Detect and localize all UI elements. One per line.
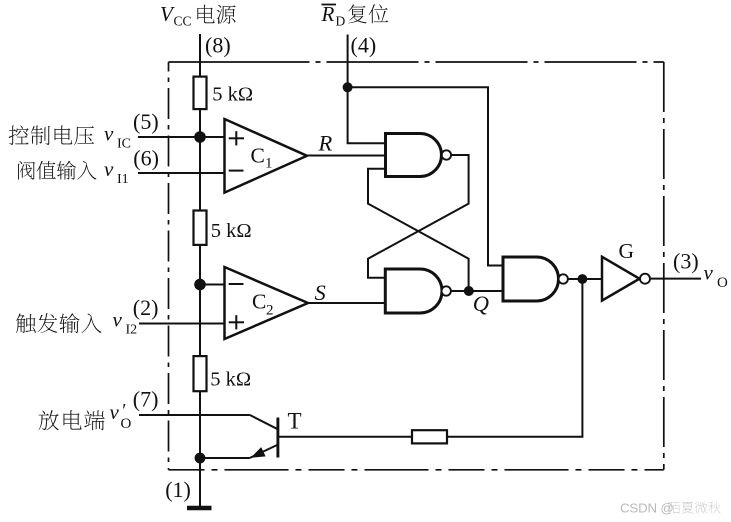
wire G2 output to G3 / node Q: [451, 290, 503, 292]
wire pin 7 discharge: [139, 414, 250, 416]
svg-text:(2): (2): [133, 295, 159, 320]
wire emitter to rail: [200, 457, 250, 459]
input label 放电端 v_O': [39, 400, 132, 432]
svg-text:(5): (5): [133, 109, 159, 134]
pin (8) label: [205, 32, 231, 57]
svg-text:(3): (3): [673, 249, 699, 274]
svg-text:5 kΩ: 5 kΩ: [210, 369, 251, 391]
pin (2) label: [133, 295, 159, 320]
svg-text:v: v: [104, 121, 114, 145]
pin (3) label: [673, 249, 699, 274]
op-amp C2 (comparator): [225, 267, 309, 339]
svg-text:1: 1: [265, 156, 273, 172]
svg-text:T: T: [288, 409, 302, 434]
wire Q-bar down to base resistor: [447, 279, 582, 437]
svg-text:5 kΩ: 5 kΩ: [212, 84, 253, 106]
wire pin 2 trigger: [139, 323, 225, 325]
svg-text:v: v: [110, 400, 120, 424]
resistor R3 5kΩ: [194, 356, 252, 391]
svg-text:I2: I2: [126, 323, 138, 338]
pin (5) label: [133, 109, 159, 134]
pin (6) label: [133, 146, 159, 171]
IC package boundary (dash-dot): [169, 62, 664, 470]
input label 控制电压 v_IC: [9, 121, 131, 151]
wire pin 5 control voltage: [138, 136, 225, 138]
input label 触发输入 v_I2: [16, 307, 137, 337]
net label Vcc power (V_CC 电源): [160, 2, 236, 29]
svg-text:v: v: [113, 307, 123, 331]
wire pin 4 reset line down to G1 first input: [348, 35, 386, 144]
svg-text:(8): (8): [205, 32, 231, 57]
resistor R1 5kΩ: [194, 77, 254, 110]
wire pin 6 threshold: [138, 172, 225, 174]
resistor base (unlabeled): [412, 430, 447, 443]
node emitter junction: [195, 453, 206, 464]
svg-text:5 kΩ: 5 kΩ: [211, 220, 252, 242]
wire output pin 3: [650, 278, 701, 280]
wire rail R2-R3: [199, 245, 201, 356]
wire G1 feedback input from Q: [368, 169, 469, 291]
svg-text:2: 2: [266, 303, 274, 319]
ground: [187, 506, 212, 510]
inverter G: [602, 239, 650, 301]
svg-text:S: S: [315, 280, 326, 305]
svg-text:CSDN @: CSDN @: [620, 501, 674, 516]
svg-text:IC: IC: [117, 136, 131, 151]
svg-text:Q: Q: [473, 291, 489, 316]
nand gate G1: [386, 134, 452, 177]
wire C2 output / node S: [308, 302, 385, 304]
svg-text:I1: I1: [117, 172, 129, 187]
node G3 output junction: [578, 274, 588, 284]
node reset junction: [343, 82, 353, 92]
wire pin 8 to divider: [199, 34, 201, 77]
node R label: [318, 130, 333, 155]
net label reset (R_D 复位): [321, 2, 389, 29]
watermark CSDN: [620, 501, 721, 516]
node C2 minus junction: [194, 279, 206, 291]
wire base resistor to T base: [279, 436, 412, 438]
net label v_O: [704, 260, 729, 291]
svg-text:(7): (7): [133, 387, 159, 412]
svg-text:R: R: [318, 130, 333, 155]
svg-text:(1): (1): [165, 477, 191, 502]
nand gate G3: [503, 257, 568, 301]
svg-text:CC: CC: [174, 14, 192, 29]
pin (7) label: [133, 387, 159, 412]
svg-text:G: G: [619, 239, 635, 263]
wire G1 output cross-couple to G2: [368, 155, 469, 278]
svg-text:(6): (6): [133, 146, 159, 171]
transistor T (npn discharge): [250, 409, 302, 458]
nand gate G2: [385, 269, 451, 313]
svg-text:R: R: [321, 2, 335, 26]
wire rail R1-R2: [199, 109, 201, 210]
svg-text:C: C: [252, 290, 266, 314]
wire C1 output / node R: [307, 155, 386, 157]
wire C2 minus input: [200, 284, 225, 286]
pin (1) label: [165, 477, 191, 502]
node control-voltage junction (pin5): [194, 131, 206, 143]
wire rail R3 to ground: [199, 391, 201, 506]
wire reset to G3 top input: [348, 87, 503, 265]
node S label: [315, 280, 326, 305]
node Q junction: [464, 286, 474, 296]
wire G3 output: [568, 278, 602, 280]
svg-text:(4): (4): [351, 32, 377, 57]
svg-text:O: O: [717, 275, 728, 291]
svg-text:C: C: [251, 144, 265, 168]
resistor R2 5kΩ: [194, 211, 252, 245]
svg-text:v: v: [104, 157, 114, 181]
node Q label: [473, 291, 489, 316]
svg-text:′: ′: [122, 401, 126, 422]
input label 阀值输入 v_I1: [18, 157, 129, 187]
op-amp C1 (comparator): [225, 119, 308, 193]
svg-text:D: D: [336, 14, 346, 29]
pin (4) label: [351, 32, 377, 57]
svg-text:v: v: [704, 260, 714, 284]
